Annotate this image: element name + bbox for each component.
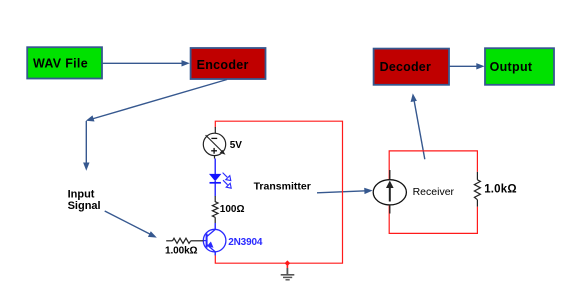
svg-text:Output: Output bbox=[490, 60, 533, 74]
wire source top lead (black) bbox=[214, 127, 216, 133]
svg-text:Input: Input bbox=[68, 188, 95, 200]
svg-text:100Ω: 100Ω bbox=[220, 204, 245, 215]
junction ground node dot bbox=[285, 260, 291, 266]
svg-text:Signal: Signal bbox=[68, 200, 101, 212]
svg-text:1.00kΩ: 1.00kΩ bbox=[165, 246, 198, 257]
wire emitter down (blue then red) bbox=[214, 252, 216, 256]
wire transmitter loop top/right/bottom (red) bbox=[215, 121, 342, 263]
resistor R3 1.0k receiver load bbox=[474, 172, 480, 207]
svg-text:Receiver: Receiver bbox=[413, 186, 455, 198]
arrow Encoder to Input node bbox=[86, 80, 227, 122]
arrow Input Signal to base resistor bbox=[105, 211, 157, 238]
svg-text:5V: 5V bbox=[230, 140, 243, 151]
wire R1 to transistor (black then blue) bbox=[214, 217, 216, 229]
svg-text:1.0kΩ: 1.0kΩ bbox=[484, 183, 517, 195]
svg-text:WAV File: WAV File bbox=[33, 56, 88, 70]
arrow WAV File to Encoder bbox=[102, 60, 190, 66]
source V1 5V bbox=[203, 133, 225, 158]
svg-text:Transmitter: Transmitter bbox=[254, 180, 311, 192]
resistor R1 100 ohm bbox=[212, 202, 218, 218]
diode LED1 bbox=[209, 173, 231, 197]
wire receiver loop (red) bbox=[389, 151, 477, 234]
arrow Transmitter to Receiver bbox=[317, 188, 373, 194]
arrow Receiver to Decoder bbox=[411, 93, 425, 159]
block Output bbox=[485, 48, 554, 85]
wire LED to R1 (black lead) bbox=[214, 196, 216, 202]
arrow Input node down bbox=[83, 121, 89, 171]
svg-text:Decoder: Decoder bbox=[380, 60, 431, 74]
arrow Decoder to Output bbox=[449, 63, 484, 69]
svg-text:Encoder: Encoder bbox=[197, 58, 249, 72]
transistor Q1 2N3904 bbox=[203, 229, 226, 252]
block WAV File bbox=[27, 47, 102, 78]
block Encoder bbox=[191, 48, 266, 79]
ground GND bbox=[281, 263, 295, 280]
svg-text:2N3904: 2N3904 bbox=[228, 237, 263, 248]
label Input Signal bbox=[68, 188, 101, 212]
resistor R2 1.00k base bbox=[166, 238, 203, 243]
source I1 receiver current source bbox=[373, 170, 406, 214]
wire source to LED (blue) bbox=[214, 159, 216, 175]
block Decoder bbox=[374, 49, 449, 85]
